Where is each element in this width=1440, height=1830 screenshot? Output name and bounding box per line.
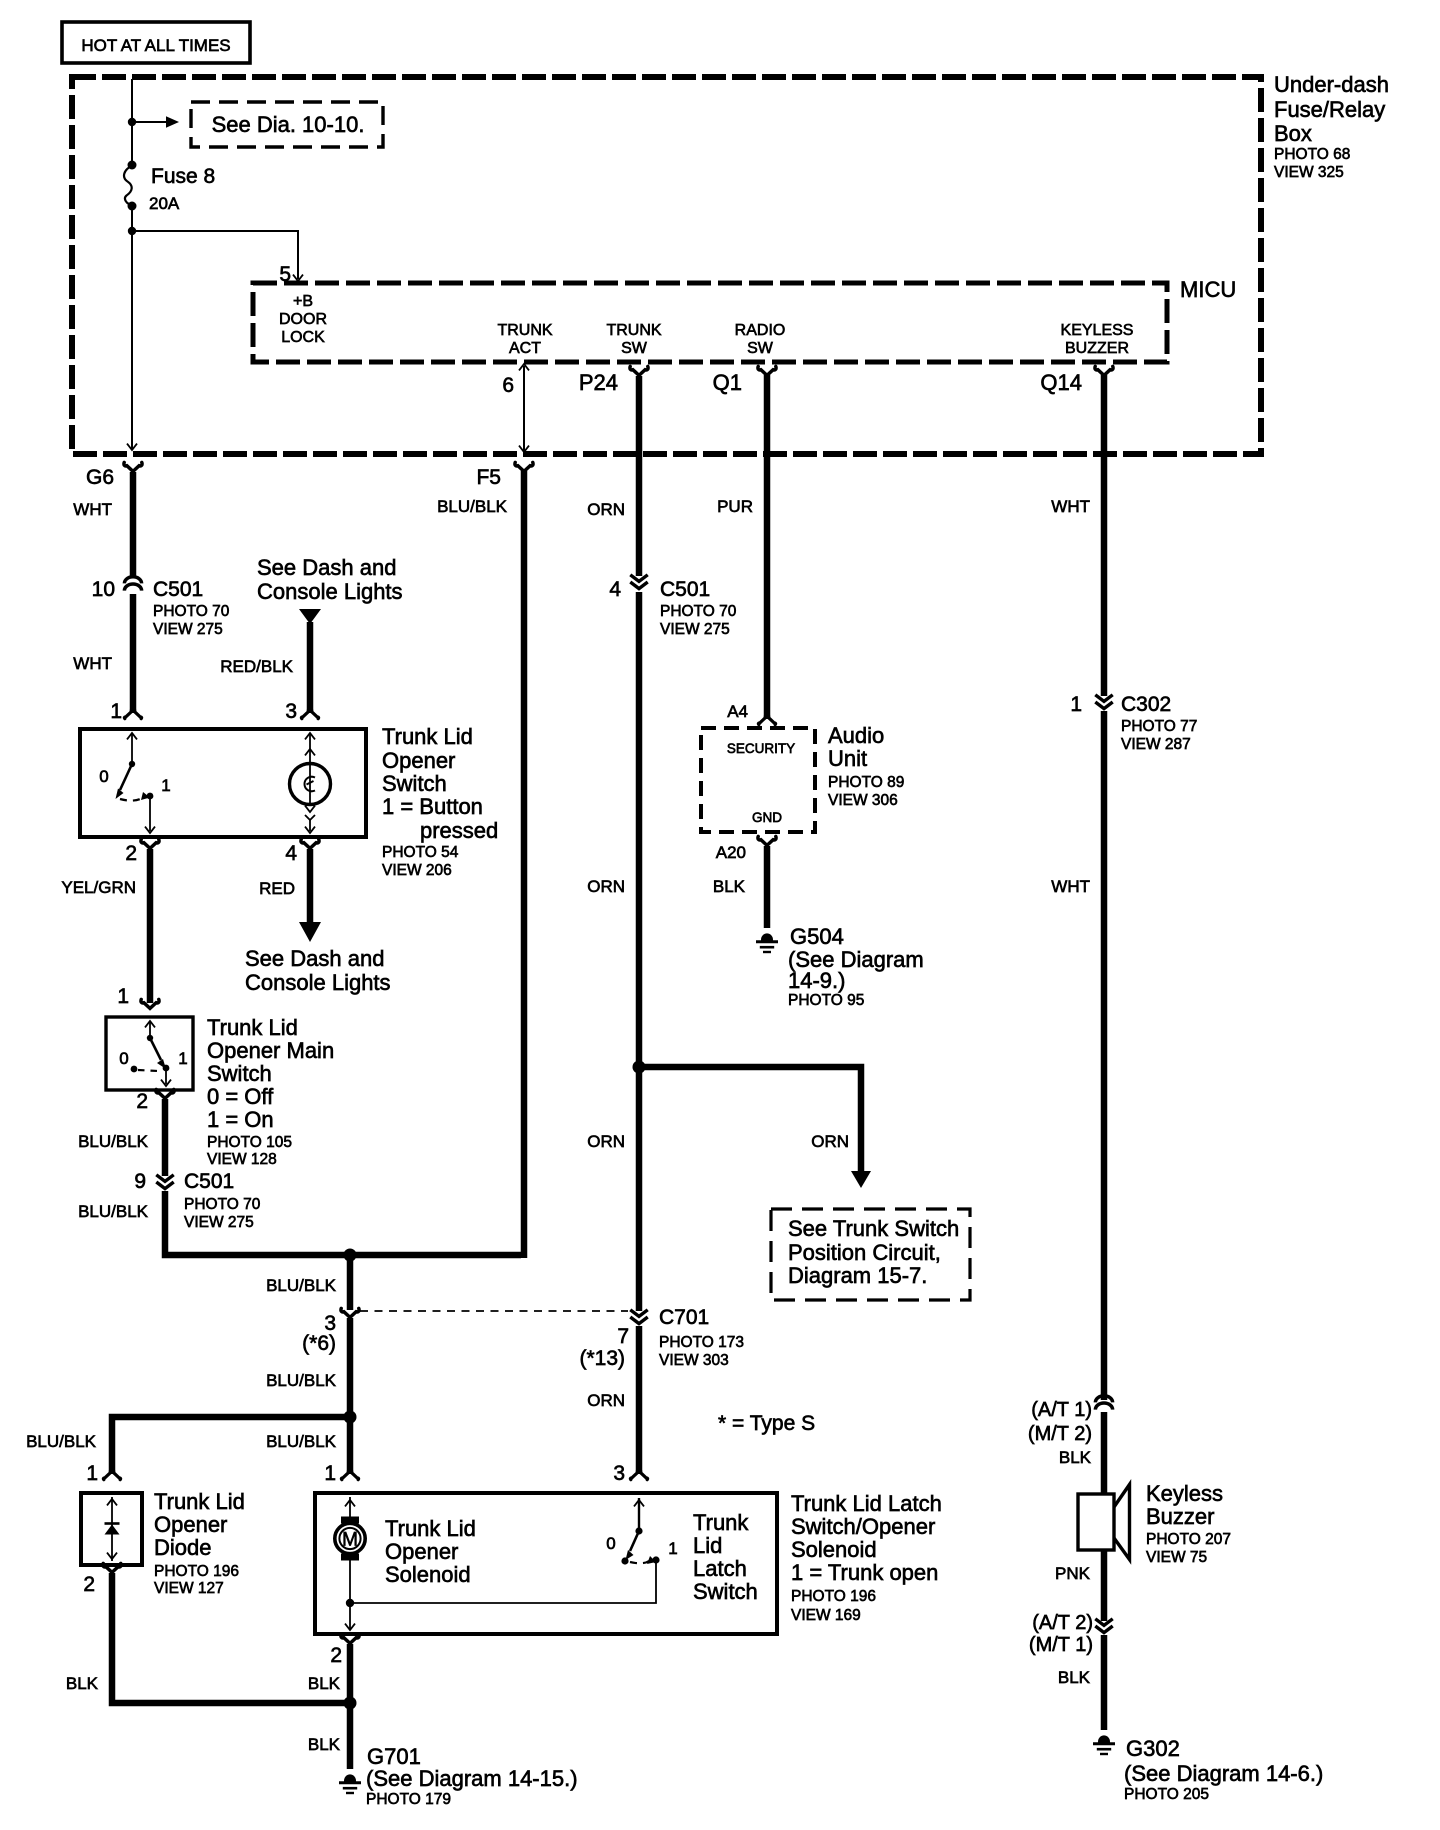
latch switch feed line bbox=[634, 1498, 644, 1535]
svg-text:7: 7 bbox=[617, 1325, 629, 1348]
under-dash fuse/relay box label bbox=[1274, 72, 1389, 181]
connector C501 pin 10 (inline) bbox=[124, 577, 141, 591]
opener switch lamp branch line bbox=[305, 733, 315, 833]
svg-text:Console Lights: Console Lights bbox=[257, 579, 403, 604]
svg-text:Switch: Switch bbox=[693, 1579, 758, 1604]
diode symbol bbox=[105, 1524, 120, 1535]
junction to diode branch bbox=[344, 1411, 357, 1424]
svg-text:PHOTO 70: PHOTO 70 bbox=[660, 603, 737, 620]
svg-text:Trunk: Trunk bbox=[693, 1510, 749, 1535]
PUR wire Q1 to audio unit pin A4 bbox=[764, 375, 771, 717]
svg-text:VIEW 127: VIEW 127 bbox=[154, 1580, 224, 1597]
connector male pin 1 opener switch bbox=[124, 710, 141, 719]
svg-text:VIEW 206: VIEW 206 bbox=[382, 862, 452, 879]
ground G504 bbox=[756, 933, 778, 952]
connector A/T1 M/T2 (inline) bbox=[1095, 1396, 1112, 1410]
trunk lid latch switch/opener solenoid label block bbox=[791, 1491, 942, 1624]
TRUNK ACT pin 6 double arrow wire bbox=[519, 364, 529, 452]
svg-text:0: 0 bbox=[99, 767, 108, 786]
C701 label block bbox=[659, 1306, 744, 1369]
svg-text:VIEW 275: VIEW 275 bbox=[153, 621, 223, 638]
see trunk switch position circuit box (dashed) bbox=[771, 1209, 970, 1300]
svg-text:Position Circuit,: Position Circuit, bbox=[788, 1240, 941, 1265]
svg-text:0: 0 bbox=[606, 1534, 615, 1553]
ORN branch wire to trunk switch position circuit bbox=[639, 1067, 861, 1173]
svg-text:6: 6 bbox=[502, 374, 514, 397]
svg-text:Unit: Unit bbox=[828, 746, 867, 771]
dashed throw latch switch bbox=[630, 1561, 649, 1563]
BLU/BLK wire F5 down to bus bbox=[521, 471, 528, 1258]
svg-text:BLU/BLK: BLU/BLK bbox=[26, 1432, 97, 1451]
wire from hot feed down to G6 bbox=[131, 79, 133, 162]
connector male audio pin A4 bbox=[758, 716, 775, 725]
svg-text:C701: C701 bbox=[659, 1306, 709, 1329]
svg-text:1: 1 bbox=[178, 1049, 187, 1068]
arrow into MICU pin 5 bbox=[293, 275, 303, 281]
svg-text:PHOTO 173: PHOTO 173 bbox=[659, 1334, 744, 1351]
(A/T 1) (M/T 2) labels bbox=[1028, 1399, 1092, 1445]
svg-text:See Trunk Switch: See Trunk Switch bbox=[788, 1216, 959, 1241]
BLU/BLK wire connector 3 to lower junction bbox=[347, 1318, 354, 1472]
svg-text:4: 4 bbox=[285, 842, 297, 865]
TRUNK ACT pin label bbox=[497, 322, 552, 357]
trunk lid opener switch label block bbox=[382, 724, 498, 879]
BLU/BLK branch wire to diode bbox=[112, 1417, 350, 1472]
svg-text:RED: RED bbox=[259, 879, 295, 898]
svg-text:BLU/BLK: BLU/BLK bbox=[78, 1132, 149, 1151]
svg-text:WHT: WHT bbox=[1051, 877, 1090, 896]
svg-text:20A: 20A bbox=[149, 194, 180, 213]
svg-text:PHOTO 179: PHOTO 179 bbox=[366, 1791, 451, 1808]
svg-text:BLK: BLK bbox=[66, 1674, 99, 1693]
svg-text:C302: C302 bbox=[1121, 693, 1171, 716]
svg-text:PHOTO 68: PHOTO 68 bbox=[1274, 146, 1350, 163]
RADIO SW pin label bbox=[735, 322, 786, 357]
opener switch illumination lamp bbox=[290, 764, 331, 805]
connector pin 2 opener switch bbox=[141, 839, 159, 848]
dashed throw to position 1 bbox=[120, 797, 144, 801]
svg-text:LOCK: LOCK bbox=[281, 329, 325, 346]
svg-text:C501: C501 bbox=[660, 578, 710, 601]
svg-text:ORN: ORN bbox=[587, 1391, 625, 1410]
under-dash fuse/relay box (dashed) bbox=[72, 77, 1261, 454]
svg-text:VIEW 306: VIEW 306 bbox=[828, 792, 898, 809]
BLU/BLK wire junction down to connector 3 bbox=[347, 1255, 354, 1310]
svg-text:F5: F5 bbox=[476, 466, 501, 489]
BLU/BLK wire main switch to C501 pin 9 bbox=[162, 1099, 169, 1176]
audio unit box (dashed) bbox=[701, 728, 815, 832]
opener switch wire to pin 2 bbox=[145, 796, 155, 833]
svg-text:HOT AT ALL TIMES: HOT AT ALL TIMES bbox=[81, 36, 230, 55]
svg-text:10: 10 bbox=[92, 578, 115, 601]
svg-text:ORN: ORN bbox=[811, 1132, 849, 1151]
PNK wire buzzer down bbox=[1101, 1550, 1108, 1621]
svg-text:1: 1 bbox=[324, 1462, 336, 1485]
svg-text:(See Diagram 14-6.): (See Diagram 14-6.) bbox=[1124, 1761, 1323, 1786]
svg-text:Fuse 8: Fuse 8 bbox=[151, 165, 215, 188]
trunk lid opener solenoid motor bbox=[335, 1517, 365, 1561]
svg-text:PHOTO 89: PHOTO 89 bbox=[828, 774, 904, 791]
arrow into fuse box bottom edge at G6 bbox=[127, 444, 137, 450]
junction ground bus bbox=[344, 1697, 357, 1710]
svg-text:Switch: Switch bbox=[382, 771, 447, 796]
svg-text:PHOTO 54: PHOTO 54 bbox=[382, 844, 459, 861]
svg-text:1 = Trunk open: 1 = Trunk open bbox=[791, 1560, 938, 1585]
fuse 8 symbol bbox=[124, 161, 136, 211]
main switch wire to pin 2 bbox=[161, 1068, 171, 1086]
connector solenoid pin 2 bbox=[341, 1634, 359, 1643]
svg-text:Diagram 15-7.: Diagram 15-7. bbox=[788, 1263, 927, 1288]
svg-text:PHOTO 196: PHOTO 196 bbox=[154, 1563, 239, 1580]
svg-text:Q1: Q1 bbox=[713, 370, 742, 395]
svg-text:2: 2 bbox=[83, 1573, 95, 1596]
connector pin 1 main switch bbox=[141, 999, 159, 1008]
WHT wire Q14 to C302 bbox=[1101, 375, 1108, 696]
connector P24 bbox=[630, 366, 648, 375]
trunk lid opener main switch box bbox=[106, 1017, 193, 1090]
solenoid motor feed line bbox=[345, 1497, 355, 1519]
KEYLESS BUZZER pin label bbox=[1061, 322, 1134, 357]
connector diode pin 2 bbox=[103, 1563, 121, 1572]
svg-text:2: 2 bbox=[136, 1090, 148, 1113]
svg-text:SECURITY: SECURITY bbox=[727, 741, 795, 756]
svg-text:Latch: Latch bbox=[693, 1556, 747, 1581]
trunk lid opener diode label block bbox=[154, 1489, 245, 1597]
svg-text:PNK: PNK bbox=[1055, 1564, 1091, 1583]
opener switch blade (position 0) bbox=[116, 764, 133, 799]
connector male pin 3 opener switch bbox=[301, 710, 318, 719]
ground G302 bbox=[1093, 1735, 1115, 1754]
svg-text:1: 1 bbox=[1070, 693, 1082, 716]
svg-text:WHT: WHT bbox=[73, 654, 112, 673]
wire branch to MICU pin 5 bbox=[132, 231, 298, 279]
svg-text:1: 1 bbox=[110, 700, 122, 723]
keyless buzzer symbol bbox=[1078, 1485, 1130, 1560]
node branch to MICU pin 5 bbox=[128, 227, 136, 235]
svg-text:PHOTO 205: PHOTO 205 bbox=[1124, 1786, 1209, 1803]
svg-text:PHOTO 196: PHOTO 196 bbox=[791, 1588, 876, 1605]
svg-text:3: 3 bbox=[285, 700, 297, 723]
connector pin 3 (C701 side) bbox=[341, 1308, 359, 1317]
RED wire from pin 4 down bbox=[307, 849, 314, 923]
G504 label block bbox=[788, 924, 924, 1009]
ORN wire C501 pin 4 down to junction bbox=[636, 592, 643, 1064]
svg-text:Under-dash: Under-dash bbox=[1274, 72, 1389, 97]
svg-text:BLU/BLK: BLU/BLK bbox=[437, 497, 508, 516]
svg-text:ORN: ORN bbox=[587, 1132, 625, 1151]
solenoid motor return line bbox=[345, 1560, 355, 1630]
svg-text:PHOTO 70: PHOTO 70 bbox=[184, 1196, 261, 1213]
svg-text:VIEW 303: VIEW 303 bbox=[659, 1352, 729, 1369]
BLK wire solenoid pin 2 to ground bbox=[347, 1644, 354, 1769]
connector C701 pin 7 (inline) bbox=[630, 1310, 647, 1324]
position 0 contact dot latch bbox=[621, 1557, 628, 1564]
svg-text:G504: G504 bbox=[790, 924, 844, 949]
svg-text:2: 2 bbox=[330, 1644, 342, 1667]
connector C501 pin 4 (inline) bbox=[630, 575, 647, 589]
svg-text:VIEW 275: VIEW 275 bbox=[184, 1214, 254, 1231]
C501 label block bbox=[153, 578, 230, 638]
TRUNK SW pin label bbox=[606, 322, 661, 357]
svg-text:Switch/Opener: Switch/Opener bbox=[791, 1514, 935, 1539]
audio unit label block bbox=[828, 723, 904, 809]
HOT AT ALL TIMES label box bbox=[62, 22, 250, 63]
junction bus to pin 3 bbox=[344, 1249, 357, 1262]
svg-text:0: 0 bbox=[119, 1049, 128, 1068]
svg-text:Buzzer: Buzzer bbox=[1146, 1504, 1214, 1529]
See Dash and Console Lights (top) label bbox=[257, 555, 403, 604]
svg-text:BUZZER: BUZZER bbox=[1065, 340, 1129, 357]
svg-text:PHOTO 77: PHOTO 77 bbox=[1121, 718, 1197, 735]
position 1 contact dot bbox=[141, 792, 153, 800]
latch switch blade bbox=[626, 1531, 640, 1560]
svg-text:See Dash and: See Dash and bbox=[245, 946, 384, 971]
svg-text:BLK: BLK bbox=[1058, 1668, 1091, 1687]
svg-text:(See Diagram 14-15.): (See Diagram 14-15.) bbox=[366, 1766, 578, 1791]
trunk lid latch switch / opener solenoid box bbox=[315, 1493, 777, 1634]
svg-text:Diode: Diode bbox=[154, 1535, 211, 1560]
position 0 contact dot bbox=[131, 1066, 138, 1073]
svg-text:WHT: WHT bbox=[1051, 497, 1090, 516]
connector pin 4 opener switch bbox=[301, 839, 319, 848]
svg-text:RED/BLK: RED/BLK bbox=[220, 657, 293, 676]
connector C501 pin 9 (inline) bbox=[156, 1175, 173, 1189]
svg-text:1: 1 bbox=[161, 776, 170, 795]
svg-text:TRUNK: TRUNK bbox=[497, 322, 552, 339]
svg-text:GND: GND bbox=[752, 810, 782, 825]
svg-text:C501: C501 bbox=[184, 1170, 234, 1193]
svg-text:Keyless: Keyless bbox=[1146, 1481, 1223, 1506]
svg-text:* = Type S: * = Type S bbox=[718, 1412, 815, 1435]
svg-text:SW: SW bbox=[621, 340, 648, 357]
svg-text:Opener: Opener bbox=[385, 1539, 458, 1564]
dashed throw main switch bbox=[138, 1070, 158, 1071]
svg-text:VIEW 325: VIEW 325 bbox=[1274, 164, 1344, 181]
svg-text:BLU/BLK: BLU/BLK bbox=[266, 1371, 337, 1390]
svg-text:BLK: BLK bbox=[1059, 1448, 1092, 1467]
svg-text:BLU/BLK: BLU/BLK bbox=[266, 1432, 337, 1451]
svg-text:Trunk Lid: Trunk Lid bbox=[154, 1489, 245, 1514]
BLK wire to keyless buzzer bbox=[1101, 1412, 1108, 1495]
svg-text:+B: +B bbox=[293, 293, 313, 310]
arrow from dash/console lights bbox=[299, 609, 321, 624]
connector male solenoid pin 1 bbox=[341, 1471, 358, 1480]
svg-text:MICU: MICU bbox=[1180, 277, 1236, 302]
svg-text:Lid: Lid bbox=[693, 1533, 722, 1558]
svg-text:Opener: Opener bbox=[154, 1512, 227, 1537]
connector A/T2 M/T1 (inline) bbox=[1095, 1619, 1112, 1633]
main switch blade toward position 1 bbox=[150, 1038, 166, 1069]
svg-text:Solenoid: Solenoid bbox=[791, 1537, 877, 1562]
wire fuse to bottom of fuse box bbox=[131, 206, 133, 449]
svg-text:G302: G302 bbox=[1126, 1736, 1180, 1761]
WHT wire C501 to opener switch pin 1 bbox=[130, 594, 137, 711]
svg-text:(A/T 1): (A/T 1) bbox=[1031, 1399, 1092, 1421]
YEL/GRN wire opener pin 2 to main switch pin 1 bbox=[147, 849, 154, 1003]
svg-text:ORN: ORN bbox=[587, 500, 625, 519]
connector pin 2 main switch bbox=[156, 1089, 174, 1098]
MICU box (dashed) bbox=[253, 283, 1167, 362]
arrow into see trunk switch box bbox=[851, 1171, 871, 1188]
svg-text:PHOTO 95: PHOTO 95 bbox=[788, 992, 864, 1009]
dashed tie line between C701 halves bbox=[360, 1310, 628, 1312]
svg-text:9: 9 bbox=[134, 1170, 146, 1193]
G701 label block bbox=[366, 1744, 578, 1808]
svg-text:0 = Off: 0 = Off bbox=[207, 1084, 274, 1109]
svg-text:14-9.): 14-9.) bbox=[788, 968, 845, 993]
See Dia. 10-10. reference box (dashed) bbox=[191, 102, 383, 147]
connector Q1 bbox=[758, 366, 776, 375]
trunk lid opener solenoid label block bbox=[385, 1516, 476, 1587]
svg-text:VIEW 128: VIEW 128 bbox=[207, 1151, 277, 1168]
connector Q14 bbox=[1095, 366, 1113, 375]
ground G701 bbox=[339, 1774, 361, 1793]
svg-text:YEL/GRN: YEL/GRN bbox=[61, 878, 136, 897]
trunk lid opener main switch label block bbox=[207, 1015, 334, 1168]
svg-text:1: 1 bbox=[86, 1462, 98, 1485]
svg-text:C501: C501 bbox=[153, 578, 203, 601]
svg-text:(A/T 2): (A/T 2) bbox=[1032, 1612, 1093, 1634]
svg-text:2: 2 bbox=[125, 842, 137, 865]
connector F5 bbox=[515, 462, 533, 471]
BLK wire to ground G302 bbox=[1101, 1635, 1108, 1730]
+B DOOR LOCK pin label bbox=[279, 293, 327, 346]
(A/T 2) (M/T 1) labels bbox=[1029, 1612, 1093, 1656]
svg-text:VIEW 275: VIEW 275 bbox=[660, 621, 730, 638]
G302 label block bbox=[1124, 1736, 1323, 1803]
arrow to dash/console lights (bottom) bbox=[299, 922, 321, 942]
svg-text:Solenoid: Solenoid bbox=[385, 1562, 471, 1587]
svg-text:KEYLESS: KEYLESS bbox=[1061, 322, 1134, 339]
connector C302 (inline) bbox=[1095, 695, 1112, 709]
svg-text:A4: A4 bbox=[727, 702, 748, 721]
svg-text:Console Lights: Console Lights bbox=[245, 970, 391, 995]
svg-text:PUR: PUR bbox=[717, 497, 753, 516]
svg-text:A20: A20 bbox=[716, 843, 746, 862]
svg-text:VIEW 169: VIEW 169 bbox=[791, 1607, 861, 1624]
svg-text:Q14: Q14 bbox=[1040, 370, 1082, 395]
svg-text:M: M bbox=[342, 1530, 358, 1551]
connector male solenoid pin 3 bbox=[630, 1471, 647, 1480]
svg-text:Opener Main: Opener Main bbox=[207, 1038, 334, 1063]
svg-text:(*13): (*13) bbox=[579, 1347, 625, 1370]
trunk lid opener diode box bbox=[81, 1493, 142, 1565]
svg-text:BLK: BLK bbox=[308, 1674, 341, 1693]
junction ORN branch bbox=[633, 1061, 646, 1074]
svg-text:PHOTO 70: PHOTO 70 bbox=[153, 603, 230, 620]
svg-text:VIEW 75: VIEW 75 bbox=[1146, 1549, 1207, 1566]
RED/BLK wire down to opener switch pin 3 bbox=[307, 622, 314, 711]
svg-text:Switch: Switch bbox=[207, 1061, 272, 1086]
BLU/BLK wire C501 pin 9 down and across bbox=[165, 1191, 521, 1255]
WHT wire G6 to C501 bbox=[130, 472, 137, 576]
svg-text:VIEW 287: VIEW 287 bbox=[1121, 736, 1191, 753]
node branch to See Dia bbox=[128, 118, 136, 126]
svg-text:(M/T 1): (M/T 1) bbox=[1029, 1634, 1093, 1656]
diode internal line bbox=[107, 1497, 117, 1561]
position 1 contact dot latch bbox=[647, 1556, 660, 1564]
svg-text:4: 4 bbox=[609, 578, 621, 601]
svg-text:Box: Box bbox=[1274, 121, 1312, 146]
svg-text:Trunk Lid Latch: Trunk Lid Latch bbox=[791, 1491, 942, 1516]
svg-text:See Dia. 10-10.: See Dia. 10-10. bbox=[212, 112, 365, 137]
WHT wire C302 down to A/T connector bbox=[1101, 711, 1108, 1400]
svg-text:1 = On: 1 = On bbox=[207, 1107, 274, 1132]
ORN wire junction down to C701 pin 7 bbox=[636, 1067, 643, 1311]
svg-text:1 = Button: 1 = Button bbox=[382, 794, 483, 819]
svg-text:Trunk Lid: Trunk Lid bbox=[382, 724, 473, 749]
svg-text:See Dash and: See Dash and bbox=[257, 555, 396, 580]
C501 pin 9 label block bbox=[184, 1170, 261, 1231]
C302 label block bbox=[1121, 693, 1197, 753]
svg-text:1: 1 bbox=[668, 1539, 677, 1558]
main switch internal contact bbox=[145, 1021, 155, 1041]
trunk lid opener switch box bbox=[80, 729, 366, 837]
svg-text:Audio: Audio bbox=[828, 723, 884, 748]
svg-text:RADIO: RADIO bbox=[735, 322, 786, 339]
svg-text:Trunk Lid: Trunk Lid bbox=[385, 1516, 476, 1541]
svg-text:BLU/BLK: BLU/BLK bbox=[78, 1202, 149, 1221]
connector audio pin A20 bbox=[758, 836, 776, 845]
BLK wire diode pin 2 to ground bus bbox=[112, 1573, 347, 1703]
BLK wire A20 to ground bbox=[764, 846, 771, 928]
svg-text:PHOTO 105: PHOTO 105 bbox=[207, 1134, 292, 1151]
svg-text:SW: SW bbox=[747, 340, 774, 357]
svg-text:pressed: pressed bbox=[420, 818, 498, 843]
svg-text:BLK: BLK bbox=[713, 877, 746, 896]
svg-text:ACT: ACT bbox=[509, 340, 541, 357]
See Dash and Console Lights (bottom) label bbox=[245, 946, 391, 995]
svg-text:DOOR: DOOR bbox=[279, 311, 327, 328]
svg-text:3: 3 bbox=[613, 1462, 625, 1485]
trunk lid latch switch label block bbox=[693, 1510, 758, 1604]
ORN wire C701 to solenoid pin 3 bbox=[636, 1326, 643, 1472]
connector G6 bbox=[124, 462, 142, 471]
svg-text:TRUNK: TRUNK bbox=[606, 322, 661, 339]
svg-text:(M/T 2): (M/T 2) bbox=[1028, 1423, 1092, 1445]
wire arrow to See Dia. 10-10. bbox=[132, 116, 179, 128]
svg-text:WHT: WHT bbox=[73, 500, 112, 519]
ORN wire P24 down to C501 pin 4 bbox=[636, 376, 643, 576]
svg-text:ORN: ORN bbox=[587, 877, 625, 896]
keyless buzzer label block bbox=[1146, 1481, 1231, 1566]
opener switch internal contact from pin 1 bbox=[127, 733, 137, 767]
svg-text:G6: G6 bbox=[86, 466, 114, 489]
svg-text:PHOTO 207: PHOTO 207 bbox=[1146, 1531, 1231, 1548]
position 1 contact dot main switch bbox=[163, 1065, 170, 1072]
svg-text:Fuse/Relay: Fuse/Relay bbox=[1274, 97, 1385, 122]
svg-text:BLU/BLK: BLU/BLK bbox=[266, 1276, 337, 1295]
svg-text:P24: P24 bbox=[579, 370, 618, 395]
C501 pin 4 label block bbox=[660, 578, 737, 638]
svg-text:1: 1 bbox=[117, 985, 129, 1008]
svg-text:Opener: Opener bbox=[382, 748, 455, 773]
connector male diode pin 1 bbox=[103, 1471, 120, 1480]
svg-text:Trunk Lid: Trunk Lid bbox=[207, 1015, 298, 1040]
svg-text:(*6): (*6) bbox=[302, 1332, 336, 1355]
latch switch to motor return link bbox=[354, 1560, 656, 1603]
svg-text:BLK: BLK bbox=[308, 1735, 341, 1754]
